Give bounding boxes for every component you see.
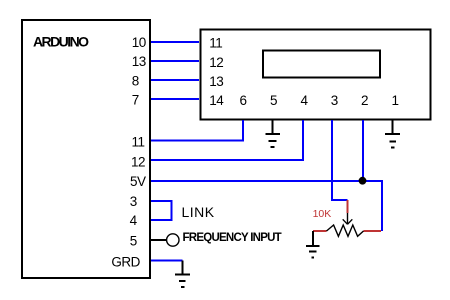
svg-text:11: 11 <box>209 36 222 51</box>
svg-text:7: 7 <box>132 93 139 108</box>
svg-text:14: 14 <box>209 93 224 108</box>
svg-text:3: 3 <box>331 93 338 108</box>
svg-text:LINK: LINK <box>182 204 215 220</box>
svg-text:10: 10 <box>132 35 146 50</box>
svg-text:3: 3 <box>130 194 137 209</box>
svg-text:6: 6 <box>239 93 246 108</box>
svg-text:13: 13 <box>209 74 223 89</box>
svg-text:GRD: GRD <box>111 254 140 269</box>
svg-text:4: 4 <box>130 213 138 228</box>
svg-text:4: 4 <box>300 93 308 108</box>
svg-text:5: 5 <box>270 93 277 108</box>
svg-text:2: 2 <box>361 93 368 108</box>
svg-text:12: 12 <box>209 55 223 70</box>
svg-text:10K: 10K <box>313 208 332 220</box>
svg-text:ARDUINO: ARDUINO <box>33 33 89 49</box>
svg-text:12: 12 <box>131 154 145 169</box>
svg-text:1: 1 <box>391 93 398 108</box>
svg-text:13: 13 <box>132 54 146 69</box>
svg-text:5: 5 <box>130 234 137 249</box>
svg-text:FREQUENCY INPUT: FREQUENCY INPUT <box>183 232 282 244</box>
svg-text:5V: 5V <box>130 174 146 189</box>
svg-text:11: 11 <box>132 135 145 150</box>
svg-text:8: 8 <box>132 73 139 88</box>
